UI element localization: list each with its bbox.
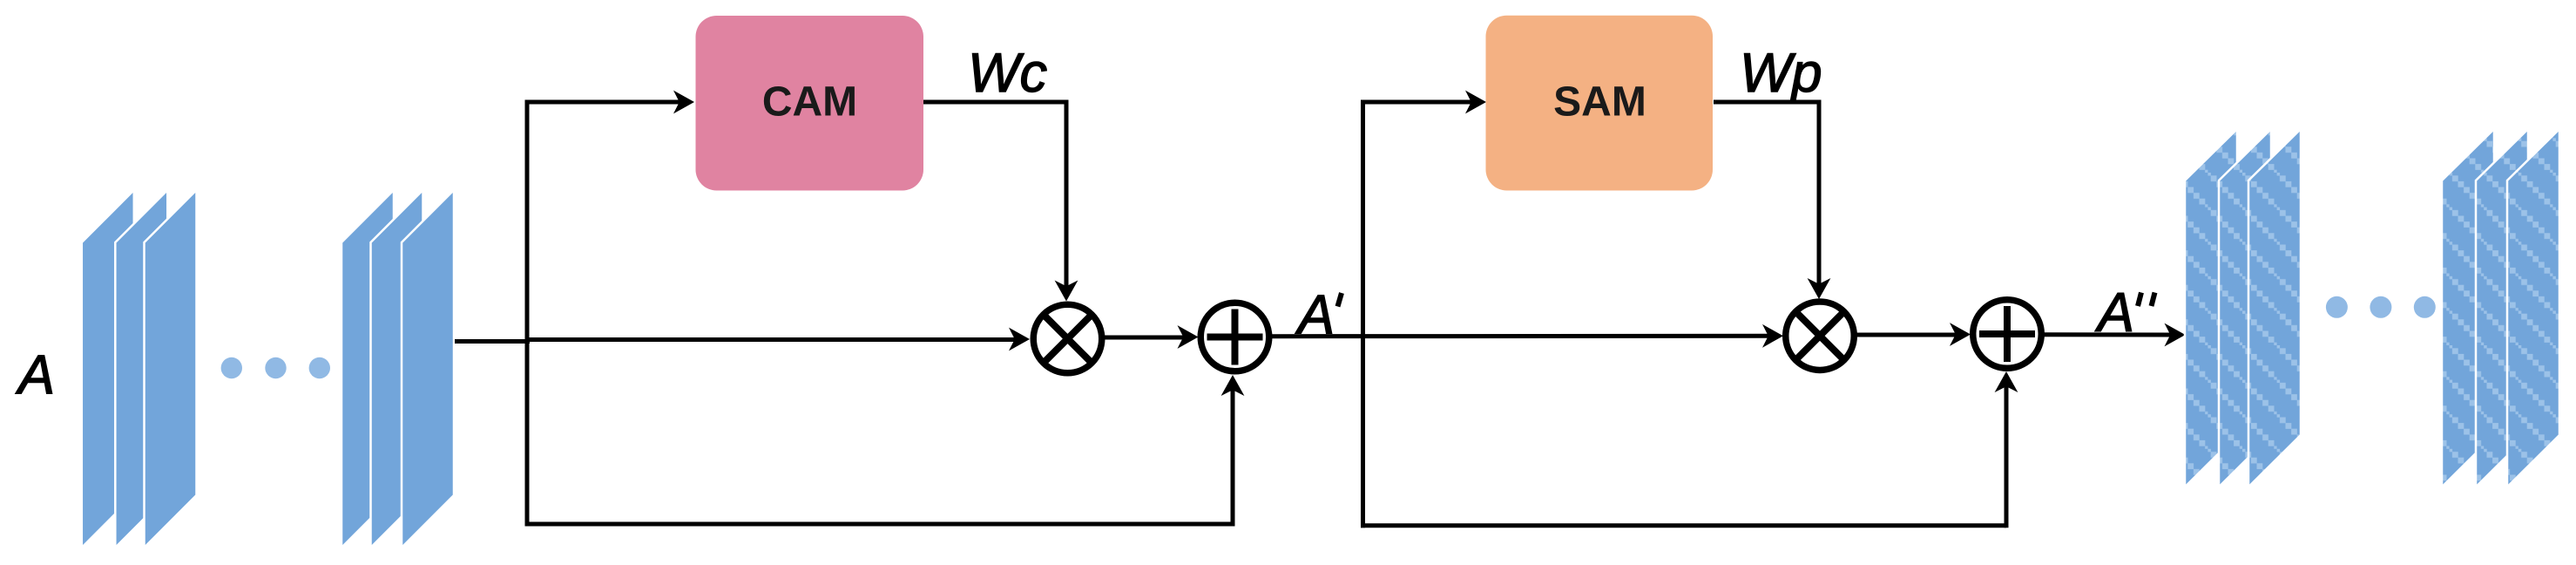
wire: main line to multiply node 1 — [527, 337, 1016, 342]
CAM box — [696, 16, 924, 191]
wire: drop into multiply node 2 — [1817, 100, 1822, 285]
skip wire 2 (bottom) — [1361, 523, 2006, 528]
wire: branch to SAM input — [1361, 100, 1471, 105]
output feature map stack far right (hatched) — [2442, 129, 2559, 487]
wire: output A'' to stack — [2043, 332, 2172, 337]
add node 1 — [1200, 303, 1269, 371]
wire: branch riser 2 — [1361, 100, 1365, 528]
input feature map stack A — [82, 190, 197, 548]
wire: stack to branch node — [455, 339, 530, 344]
ellipsis dots right — [2326, 296, 2436, 318]
wire: CAM output to corner — [923, 100, 1069, 105]
svg-text:A: A — [15, 344, 55, 405]
svg-text:SAM: SAM — [1553, 79, 1646, 126]
svg-text:Wp: Wp — [1740, 43, 1822, 104]
SAM box — [1486, 16, 1714, 191]
wire: branch to CAM input — [525, 100, 680, 105]
skip wire 1 (bottom) — [525, 522, 1234, 527]
multiply node 2 — [1786, 302, 1855, 371]
wire: SAM output to corner — [1714, 100, 1822, 105]
add node 2 — [1973, 300, 2042, 369]
svg-text:Wc: Wc — [968, 43, 1047, 104]
wire: add 1 to multiply node 2 (main line A') — [1271, 334, 1769, 338]
svg-text:CAM: CAM — [762, 79, 857, 126]
svg-text:A: A — [1295, 284, 1335, 345]
wire: branch riser 1 — [525, 100, 530, 527]
output feature map stack (hatched) — [2185, 129, 2301, 487]
ellipsis dots left — [221, 357, 330, 378]
feature map stack (last input layer) — [341, 190, 454, 548]
svg-text:A: A — [2094, 282, 2134, 344]
wire: multiply 1 to add 1 — [1103, 336, 1184, 340]
wire: drop into multiply node 1 — [1065, 100, 1069, 288]
multiply node 1 — [1033, 304, 1102, 373]
wire: multiply 2 to add 2 — [1856, 333, 1957, 337]
